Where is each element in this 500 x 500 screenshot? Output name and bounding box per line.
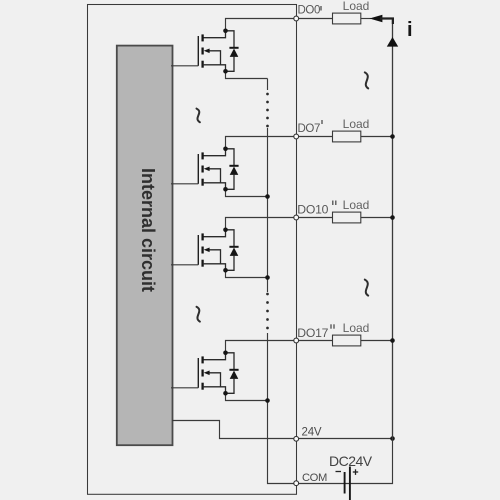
svg-text:DO0: DO0 — [298, 4, 320, 16]
svg-text:Load: Load — [343, 321, 370, 335]
svg-text:Internal circuit: Internal circuit — [138, 168, 158, 292]
svg-text:DO10: DO10 — [297, 202, 328, 216]
svg-text:DO7: DO7 — [298, 123, 320, 135]
svg-text:Load: Load — [343, 117, 370, 131]
svg-text:24V: 24V — [302, 427, 322, 439]
svg-text:DO17: DO17 — [297, 326, 328, 340]
svg-text:i: i — [407, 19, 413, 41]
svg-text:Load: Load — [343, 0, 370, 13]
svg-text:COM: COM — [302, 472, 327, 484]
svg-text:Load: Load — [343, 198, 370, 212]
svg-text:DC24V: DC24V — [329, 453, 373, 469]
